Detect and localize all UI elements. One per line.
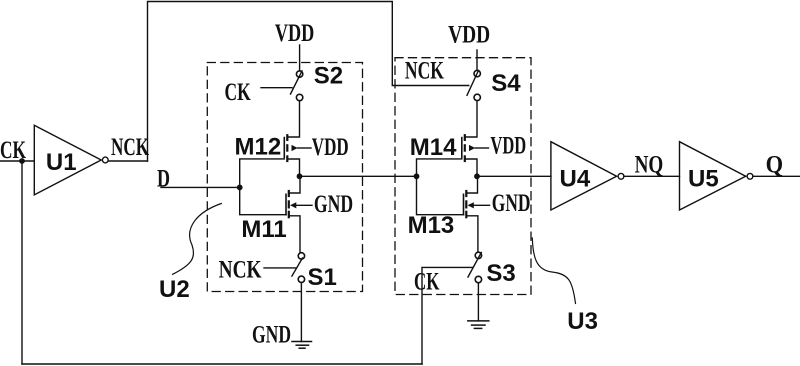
svg-text:U2: U2 (159, 276, 190, 303)
svg-text:M14: M14 (410, 134, 457, 161)
svg-text:Q: Q (766, 152, 784, 179)
svg-text:NCK: NCK (111, 134, 149, 161)
svg-text:D: D (157, 166, 170, 193)
svg-text:VDD: VDD (275, 20, 314, 47)
wire Q output (753, 175, 800, 177)
wire D input (161, 186, 240, 188)
svg-text:NCK: NCK (405, 57, 444, 84)
dashed box U2 (207, 63, 362, 292)
dashed box U3 (395, 58, 531, 295)
wire NCK from U1 to top loop (108, 160, 147, 162)
svg-text:S1: S1 (308, 264, 337, 291)
ground symbol below S1 (292, 342, 312, 349)
svg-text:GND: GND (314, 191, 353, 218)
switch S3 (475, 252, 481, 258)
callout squiggle U3 (532, 238, 575, 304)
svg-text:U4: U4 (560, 166, 591, 193)
node D junction (237, 185, 243, 191)
svg-text:S4: S4 (491, 70, 521, 97)
wire CK feedback right vertical to S3 (422, 267, 473, 364)
wire CK feedback left vertical (21, 161, 23, 364)
op-amp U4 output bubble (618, 173, 624, 179)
svg-text:NQ: NQ (635, 151, 664, 178)
ground symbol below S3 (468, 321, 489, 329)
wire CK control to S2 (261, 87, 292, 89)
transistor M12 (284, 101, 299, 177)
wire gate link M12/M11 (240, 159, 286, 215)
wire NQ from U4 to U5 (624, 175, 680, 177)
transistor M14 body arrow to VDD (469, 145, 475, 151)
wire CK input (0, 160, 34, 162)
svg-text:GND: GND (492, 190, 531, 217)
wire top feedback NCK loop (148, 2, 469, 162)
node U3 output (474, 173, 480, 179)
switch S4 (474, 70, 480, 76)
op-amp U5 inverter triangle (680, 142, 746, 210)
svg-text:CK: CK (225, 79, 252, 106)
switch S2 wire from VDD (299, 45, 301, 71)
svg-text:M13: M13 (408, 212, 455, 239)
svg-text:U5: U5 (688, 166, 719, 193)
transistor M13 body arrow from GND (468, 202, 474, 208)
svg-text:M11: M11 (241, 216, 286, 243)
svg-text:M12: M12 (235, 133, 282, 160)
op-amp U4 inverter triangle (551, 142, 617, 210)
wire S3 to ground (477, 283, 479, 321)
wire NCK control to S1 (264, 267, 296, 269)
wire U2 output to M14/M13 gates (300, 175, 417, 177)
svg-text:CK: CK (0, 137, 26, 164)
node U2 output (297, 173, 303, 179)
node M14/M13 gate junction (414, 173, 420, 179)
svg-text:U3: U3 (567, 308, 598, 335)
op-amp U1 output bubble (102, 157, 108, 163)
svg-text:S2: S2 (314, 63, 343, 90)
wire gate link M14/M13 (417, 159, 464, 215)
svg-text:U1: U1 (46, 149, 77, 176)
transistor M11 (286, 176, 300, 252)
svg-text:NCK: NCK (219, 257, 262, 284)
wire CK feedback bottom (22, 363, 422, 365)
switch S4 wire from VDD (476, 50, 478, 70)
svg-text:GND: GND (252, 322, 291, 349)
op-amp U5 output bubble (747, 173, 753, 179)
svg-text:CK: CK (414, 269, 440, 296)
callout squiggle U2 (173, 204, 222, 275)
svg-text:VDD: VDD (490, 133, 526, 160)
wire S1 to ground (300, 283, 302, 342)
switch S1 (298, 253, 304, 259)
switch S2 (296, 71, 302, 77)
transistor M13 (464, 176, 478, 252)
svg-text:VDD: VDD (312, 134, 349, 161)
transistor M14 (462, 101, 477, 177)
svg-text:S3: S3 (486, 260, 515, 287)
transistor M11 body arrow from GND (290, 202, 296, 208)
wire U3 output to U4 (477, 175, 551, 177)
transistor M12 body arrow to VDD (292, 145, 298, 151)
op-amp U1 inverter triangle (34, 125, 101, 195)
svg-text:VDD: VDD (448, 22, 490, 49)
node CK junction (19, 158, 25, 164)
